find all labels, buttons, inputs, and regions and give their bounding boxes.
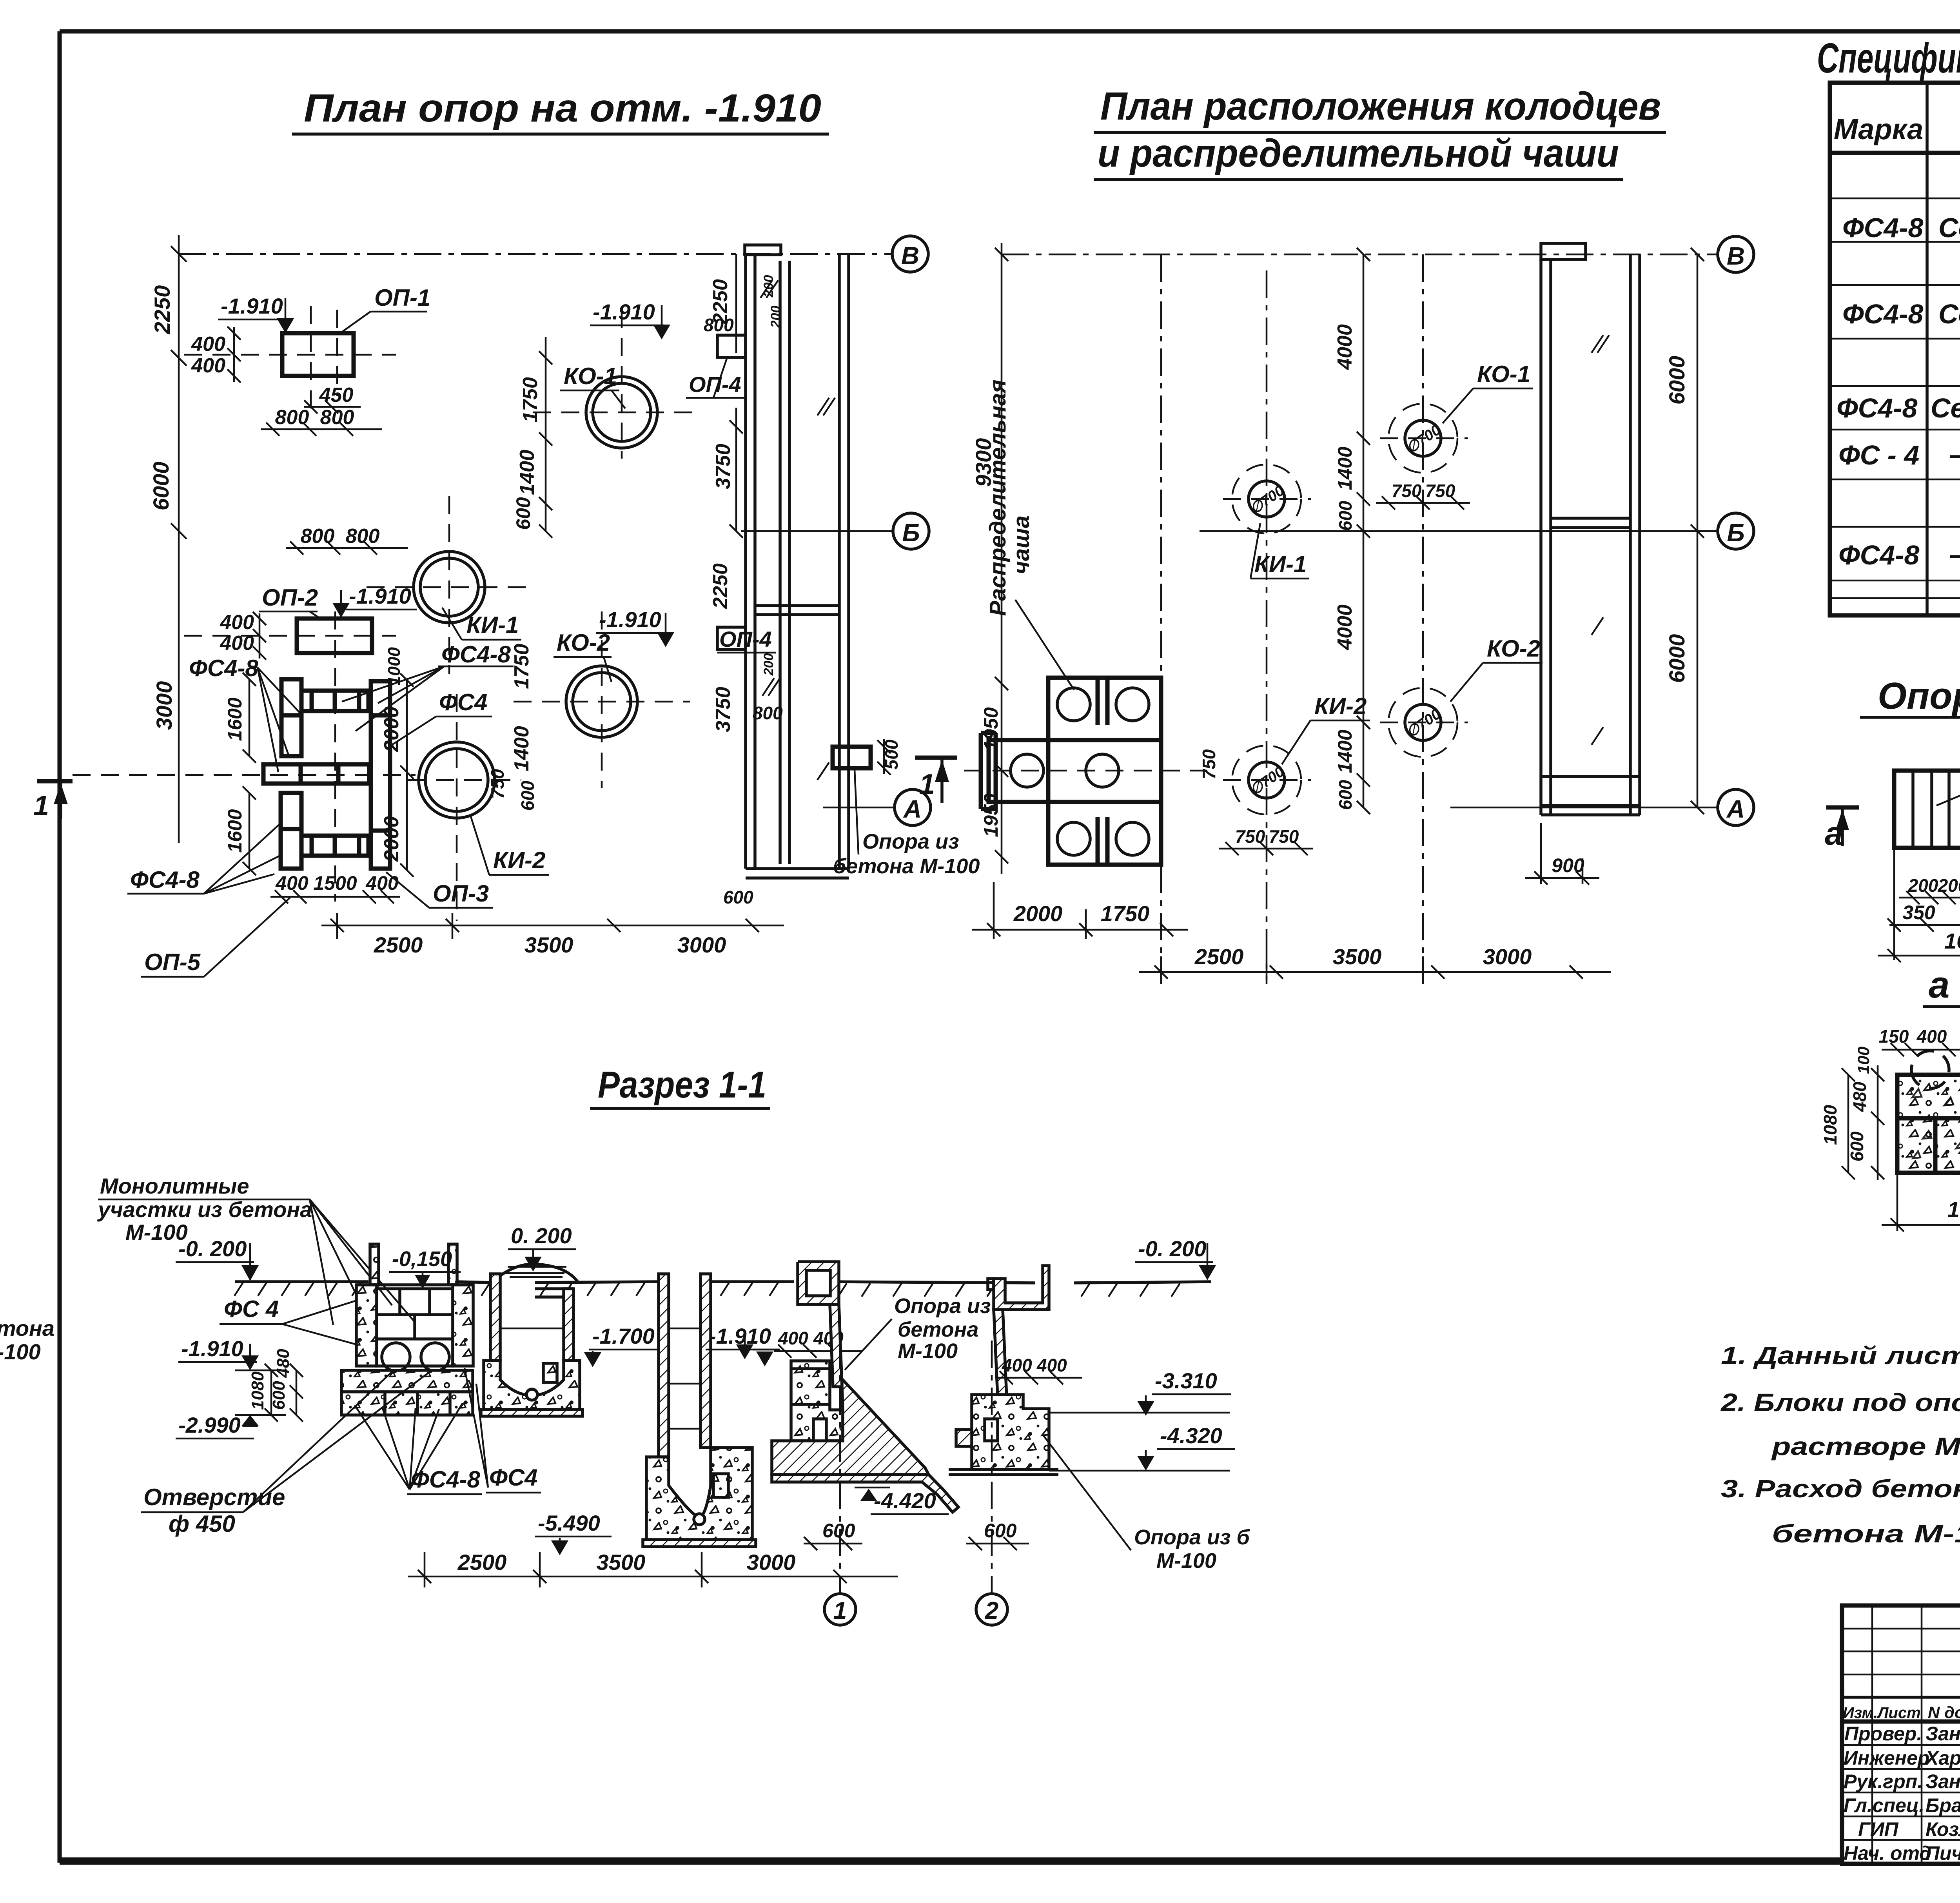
well KO-1 middle (1405, 420, 1441, 456)
axis circle B (1718, 236, 1754, 272)
cluster left dim 1600s (243, 673, 256, 875)
svg-text:480: 480 (1849, 1081, 1870, 1112)
svg-text:бетона: бетона (0, 1316, 54, 1341)
support of concrete M100 (right) (833, 747, 871, 768)
bowl circles (1011, 688, 1149, 855)
section a-a drawing (1897, 1075, 1960, 1173)
bowl foundation slabs (341, 1370, 473, 1392)
svg-text:растворе М- 50.: растворе М- 50. (1771, 1432, 1960, 1460)
svg-text:ОП-2: ОП-2 (262, 584, 318, 611)
svg-text:3500: 3500 (597, 1550, 646, 1575)
axis line B (1002, 254, 1718, 256)
svg-text:ФС4-8: ФС4-8 (1842, 299, 1923, 329)
pipe holes a-a (1911, 1051, 1949, 1088)
right vertical dim 6000 x2 (1691, 248, 1704, 814)
middle tank break marks (1592, 335, 1609, 745)
svg-text:-1.910: -1.910 (349, 584, 411, 608)
svg-text:800: 800 (704, 315, 734, 335)
bowl masonry blocks (377, 1289, 453, 1366)
svg-text:-0. 200: -0. 200 (178, 1236, 247, 1261)
svg-text:1600: 1600 (224, 697, 246, 741)
svg-text:ФС4: ФС4 (489, 1464, 538, 1491)
svg-text:Разрез 1-1: Разрез 1-1 (598, 1064, 766, 1106)
svg-text:N докум.: N докум. (1928, 1703, 1960, 1722)
svg-text:М-100: М-100 (1156, 1549, 1216, 1573)
well 2 foundation (484, 1361, 580, 1410)
svg-text:1600: 1600 (1944, 929, 1960, 953)
svg-text:ОП-3: ОП-3 (433, 880, 489, 907)
svg-text:400: 400 (220, 611, 254, 634)
svg-text:Опора из: Опора из (862, 830, 959, 853)
svg-text:-2.990: -2.990 (178, 1413, 241, 1437)
svg-text:480: 480 (274, 1349, 293, 1378)
svg-text:3750: 3750 (712, 444, 735, 489)
svg-text:-0. 200: -0. 200 (1138, 1236, 1206, 1261)
svg-text:2500: 2500 (374, 932, 423, 957)
svg-text:2250: 2250 (709, 563, 732, 609)
ground hatch (234, 1283, 1180, 1297)
notes (1720, 1341, 1960, 1600)
stamp grid (1842, 1605, 1960, 1864)
svg-text:4000: 4000 (1334, 604, 1356, 650)
section 1-1 (0, 1064, 1250, 1625)
svg-text:100: 100 (1854, 1047, 1873, 1074)
svg-text:600: 600 (517, 780, 538, 811)
svg-text:и распределительной чаши: и распределительной чаши (1098, 131, 1619, 175)
well KO-1 (586, 377, 657, 448)
svg-text:Опора из б: Опора из б (1134, 1526, 1250, 1549)
svg-text:600: 600 (512, 497, 534, 530)
axis line B (179, 253, 892, 255)
section mark 1 left (37, 779, 73, 784)
section mark 1 right (915, 756, 957, 760)
svg-text:Гл.спец.: Гл.спец. (1844, 1794, 1924, 1816)
svg-text:Распределительная: Распределительная (985, 379, 1011, 616)
svg-text:КО-1: КО-1 (564, 363, 617, 389)
svg-text:Спецификация железобетонных и: Спецификация железобетонных и бетонных э… (1817, 34, 1960, 82)
svg-text:-1.910: -1.910 (593, 299, 655, 324)
svg-text:1400: 1400 (510, 726, 533, 771)
ground line (235, 1282, 1211, 1283)
svg-text:ФС4-8: ФС4-8 (1837, 393, 1917, 423)
axis line A (823, 807, 895, 809)
support OP-4 lower (717, 627, 746, 649)
spec table (1817, 34, 1960, 615)
bottom dim chain 2500/3500/3000 (321, 913, 784, 939)
svg-text:Серия 1.116-1 в.1: Серия 1.116-1 в.1 (1938, 212, 1960, 243)
svg-text:КО-1: КО-1 (1477, 361, 1530, 387)
axis circle A (895, 789, 931, 825)
svg-text:ФС4: ФС4 (439, 689, 488, 715)
middle tank walls (1541, 243, 1640, 815)
svg-text:КИ-1: КИ-1 (466, 612, 519, 638)
svg-text:6000: 6000 (149, 462, 173, 511)
left plan (33, 86, 980, 977)
svg-text:-5.490: -5.490 (538, 1511, 600, 1535)
svg-text:КО-2: КО-2 (557, 629, 610, 656)
svg-text:Пичахчи: Пичахчи (1926, 1842, 1960, 1864)
cluster dim 2000/2000 (400, 673, 414, 877)
svg-text:200: 200 (761, 275, 776, 298)
svg-text:1: 1 (919, 769, 935, 800)
support OP-1 (282, 333, 354, 376)
cluster centerlines (334, 611, 336, 902)
svg-text:1750: 1750 (519, 377, 542, 423)
svg-text:чаша: чаша (1009, 515, 1034, 574)
svg-text:Монолитные: Монолитные (100, 1174, 249, 1198)
OP-2 plan (1894, 771, 1960, 848)
svg-text:200: 200 (1938, 875, 1960, 896)
svg-text:600: 600 (1847, 1131, 1867, 1161)
svg-text:2500: 2500 (457, 1550, 507, 1575)
svg-text:800: 800 (275, 406, 309, 429)
svg-text:1500: 1500 (313, 872, 357, 894)
svg-text:ФС4-8: ФС4-8 (1838, 540, 1919, 570)
svg-text:Серия 1.116-1 в.1: Серия 1.116-1 в.1 (1931, 393, 1960, 423)
svg-text:200: 200 (768, 306, 783, 328)
support 4 block FS4-8 (791, 1361, 843, 1441)
svg-text:3000: 3000 (747, 1550, 796, 1575)
svg-text:-0,150: -0,150 (392, 1247, 452, 1271)
axis line A (1450, 807, 1718, 809)
svg-text:3500: 3500 (524, 932, 573, 957)
middle plan (964, 84, 1754, 984)
svg-text:Лист: Лист (1877, 1704, 1921, 1722)
svg-text:1750: 1750 (1101, 901, 1150, 926)
svg-text:800: 800 (320, 406, 354, 429)
axis mark 2 (section) (991, 1341, 993, 1594)
support 4 top box (798, 1262, 839, 1304)
svg-text:6000: 6000 (1664, 356, 1689, 405)
svg-text:200: 200 (761, 653, 776, 676)
svg-text:1750: 1750 (510, 644, 533, 689)
svg-text:2000: 2000 (1013, 901, 1063, 926)
svg-text:Харченко: Харченко (1924, 1747, 1960, 1769)
svg-text:Инженер: Инженер (1844, 1747, 1929, 1769)
bowl section above-ground bars (370, 1244, 379, 1285)
support details (1820, 672, 1960, 1257)
bottom dim chain 2500/3500/3000 (1139, 956, 1611, 984)
svg-text:1400: 1400 (1334, 446, 1356, 490)
support 4 wall (830, 1304, 842, 1387)
support 5 left slab (956, 1430, 972, 1446)
svg-text:1400: 1400 (1334, 729, 1356, 773)
tank walls (745, 245, 849, 878)
svg-text:400: 400 (191, 333, 225, 356)
svg-text:2500: 2500 (1194, 944, 1244, 969)
title block (1842, 1605, 1960, 1885)
svg-text:1950: 1950 (980, 707, 1002, 751)
right vertical dim 3750/2250 (730, 254, 743, 538)
well KI-1 (414, 551, 485, 623)
svg-text:участки из бетона: участки из бетона (97, 1197, 312, 1222)
svg-text:Опора из: Опора из (894, 1294, 991, 1318)
a-a left dims (1842, 1065, 1884, 1180)
well KI-1 middle (1249, 481, 1285, 517)
svg-text:2: 2 (985, 1597, 998, 1624)
svg-text:КИ-2: КИ-2 (493, 847, 545, 873)
vertical axis lines (1160, 254, 1162, 980)
tall well chamber (646, 1448, 752, 1540)
axis circle A (1718, 789, 1754, 825)
bowl holes (otverstie 450) (382, 1343, 410, 1371)
svg-text:Изм.: Изм. (1843, 1704, 1878, 1722)
well section 2: mound (492, 1264, 578, 1283)
svg-text:КО-2: КО-2 (1487, 635, 1540, 662)
well 2 walls (490, 1274, 500, 1361)
svg-text:М-100: М-100 (0, 1339, 41, 1364)
elevation flag left of support 4 (753, 1349, 780, 1351)
svg-text:750: 750 (1425, 481, 1455, 501)
svg-text:Брасловский: Брасловский (1926, 1794, 1960, 1816)
svg-text:2000: 2000 (380, 816, 403, 862)
svg-text:ФС4-8: ФС4-8 (1842, 212, 1923, 243)
svg-text:-1.910: -1.910 (221, 294, 283, 318)
axis circle B (892, 236, 928, 272)
svg-text:1: 1 (833, 1597, 847, 1624)
svg-text:ОП-1: ОП-1 (374, 285, 430, 311)
svg-text:Козловская: Козловская (1926, 1818, 1960, 1840)
distribution bowl (981, 678, 1161, 865)
svg-text:600: 600 (1335, 501, 1356, 531)
support 5 block (972, 1395, 1049, 1469)
svg-text:6000: 6000 (1664, 634, 1689, 683)
svg-text:200: 200 (1908, 875, 1938, 896)
svg-text:350: 350 (1902, 902, 1935, 923)
svg-text:1080: 1080 (248, 1371, 267, 1410)
section left dims 1080/480/600 (265, 1364, 303, 1422)
vertical dim chain 4000/1400/600 x2 (1357, 248, 1370, 814)
svg-text:1080: 1080 (1820, 1105, 1840, 1145)
svg-text:ОП-4: ОП-4 (719, 627, 772, 651)
svg-text:ФС 4: ФС 4 (224, 1296, 279, 1322)
svg-text:-1.910: -1.910 (599, 607, 661, 632)
svg-text:бетона М-100 V = 5.3 м: бетона М-100 V = 5.3 м (1772, 1520, 1960, 1548)
axis line B2 (741, 530, 893, 532)
svg-text:1000: 1000 (385, 647, 404, 686)
svg-text:ФС - 4: ФС - 4 (1838, 440, 1919, 470)
svg-text:Провер.: Провер. (1844, 1723, 1922, 1745)
svg-text:КИ-2: КИ-2 (1314, 693, 1367, 719)
svg-text:ф 450: ф 450 (169, 1511, 235, 1537)
well KO-2 (566, 666, 637, 737)
svg-text:-4.320: -4.320 (1160, 1423, 1222, 1448)
svg-text:400: 400 (191, 354, 225, 377)
svg-text:Марка: Марка (1834, 113, 1923, 145)
well KI-2 middle (1249, 762, 1285, 798)
svg-text:Зантберг: Зантберг (1926, 1771, 1960, 1792)
svg-text:600: 600 (269, 1381, 289, 1410)
section mark a left (1826, 805, 1859, 810)
svg-text:800: 800 (346, 525, 380, 548)
svg-text:ФС4-8: ФС4-8 (441, 641, 511, 668)
svg-text:В: В (901, 241, 919, 270)
support 5 channel top (988, 1266, 1049, 1310)
svg-text:3000: 3000 (152, 681, 176, 730)
svg-text:-1.910: -1.910 (181, 1336, 243, 1361)
svg-text:План опор на отм. -1.910: План опор на отм. -1.910 (304, 86, 821, 130)
vertical dim chain 1750/1400/600 (539, 337, 552, 538)
svg-text:400: 400 (220, 632, 254, 655)
svg-text:бетона М-100: бетона М-100 (833, 854, 980, 878)
svg-text:А: А (1726, 795, 1745, 823)
svg-text:А: А (903, 795, 922, 823)
svg-text:Серия 1.116-1 в.1: Серия 1.116-1 в.1 (1938, 299, 1960, 329)
axis mark 1 (section) (839, 1341, 841, 1594)
bowl section walls (356, 1285, 377, 1366)
well KO-2 middle (1405, 704, 1441, 740)
support OP-3 cluster (263, 679, 390, 869)
svg-text:0. 200: 0. 200 (511, 1223, 572, 1248)
svg-text:ФС4-8: ФС4-8 (130, 867, 200, 893)
svg-text:Б: Б (902, 519, 920, 547)
tank break marks (760, 280, 835, 780)
spec table grid (1830, 83, 1960, 615)
svg-text:800: 800 (753, 703, 783, 723)
svg-text:600: 600 (984, 1520, 1017, 1542)
svg-text:План расположения колодцев: План расположения колодцев (1100, 84, 1661, 128)
svg-text:1600: 1600 (1947, 1197, 1960, 1222)
svg-text:600: 600 (822, 1520, 855, 1542)
tall well section 3 (659, 1274, 669, 1457)
svg-text:2000: 2000 (380, 706, 403, 752)
svg-text:ГИП: ГИП (1858, 1818, 1899, 1840)
svg-text:-3.310: -3.310 (1155, 1368, 1217, 1393)
svg-text:750: 750 (1269, 826, 1299, 847)
svg-text:бетона: бетона (898, 1318, 978, 1341)
svg-text:В: В (1727, 242, 1745, 270)
svg-text:Рук.грп.: Рук.грп. (1844, 1771, 1923, 1792)
svg-text:ОП-5: ОП-5 (144, 949, 201, 975)
svg-text:М-100: М-100 (898, 1339, 958, 1363)
svg-text:1. Данный лист комплектен: 1. Данный лист комплектен с листами кж-2… (1721, 1341, 1960, 1370)
svg-text:3. Расход бетона на мон: 3. Расход бетона на монолитные участки и… (1721, 1475, 1960, 1503)
left dim line 9300 (995, 243, 1008, 874)
svg-text:3750: 3750 (712, 687, 735, 732)
support 4 base slab (772, 1475, 958, 1512)
left dim line (171, 235, 187, 843)
svg-text:450: 450 (319, 384, 354, 406)
support OP-4 upper (717, 335, 746, 357)
svg-text:а: а (1825, 815, 1843, 852)
svg-text:4000: 4000 (1334, 324, 1356, 370)
svg-text:2250: 2250 (150, 285, 174, 335)
svg-text:-1.700: -1.700 (592, 1324, 655, 1348)
svg-text:Нач. отд: Нач. отд (1844, 1842, 1931, 1864)
svg-text:-4.420: -4.420 (874, 1488, 936, 1513)
svg-text:2. Блоки под опоры уклад: 2. Блоки под опоры укладывать на цементн… (1720, 1388, 1960, 1417)
well KI-2 (419, 742, 495, 818)
svg-text:а - а: а - а (1929, 964, 1960, 1006)
svg-text:1: 1 (33, 790, 49, 822)
svg-text:Б: Б (1727, 519, 1744, 547)
svg-text:600: 600 (1335, 780, 1356, 810)
svg-text:750: 750 (1199, 749, 1219, 779)
svg-text:1600: 1600 (224, 809, 246, 853)
svg-text:750: 750 (487, 769, 508, 799)
svg-text:600: 600 (723, 887, 753, 907)
support 5 wall (994, 1310, 1007, 1397)
support OP-2 (297, 619, 372, 653)
svg-text:900: 900 (1552, 854, 1584, 876)
svg-text:3000: 3000 (677, 932, 726, 957)
axis line B2 (1200, 530, 1718, 532)
support 4 wedge (772, 1379, 929, 1475)
svg-text:КИ-1: КИ-1 (1254, 551, 1307, 577)
svg-text:Опора ОП-2: Опора ОП-2 (1878, 675, 1960, 717)
svg-text:Зантберг: Зантберг (1926, 1723, 1960, 1745)
svg-text:400: 400 (275, 872, 309, 894)
svg-text:1400: 1400 (516, 450, 539, 495)
svg-text:3500: 3500 (1333, 944, 1382, 969)
svg-text:3000: 3000 (1483, 944, 1532, 969)
a-a speckle texture (1912, 1088, 1960, 1160)
axis circle B2 (893, 513, 929, 549)
svg-text:400: 400 (1002, 1355, 1032, 1375)
axis circle B2 (1718, 513, 1754, 549)
